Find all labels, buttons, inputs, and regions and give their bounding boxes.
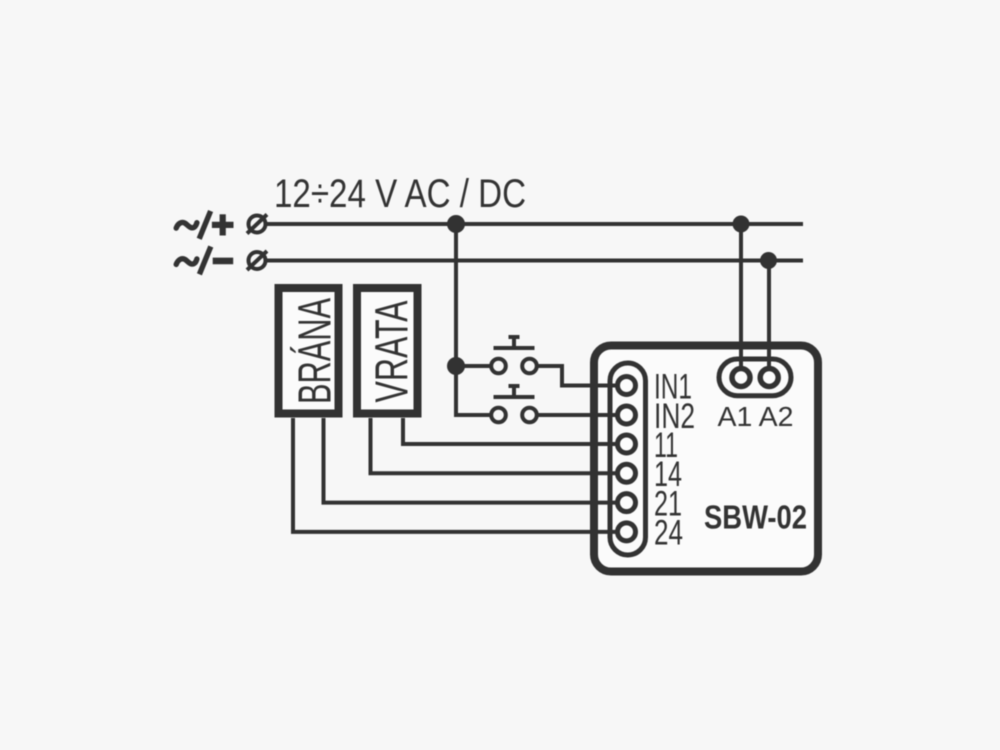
wire A2 drop: [767, 261, 771, 378]
terminal screw top: [247, 215, 267, 234]
box BRANA: [279, 288, 341, 414]
svg-text:12÷24 V AC / DC: 12÷24 V AC / DC: [274, 172, 526, 216]
label ~/+: [176, 211, 233, 239]
module SBW-02 body: [594, 346, 818, 572]
node junction on top line at x=741: [733, 216, 750, 233]
terminal 21: [618, 494, 636, 512]
terminal IN2: [618, 406, 636, 424]
terminal 14: [618, 464, 636, 482]
wire VRATA left to 14: [371, 418, 627, 473]
wire to switch 1: [456, 364, 492, 368]
svg-text:VRATA: VRATA: [366, 300, 418, 402]
wire BRANA left to 24: [293, 418, 627, 532]
label ~/-: [176, 247, 233, 275]
node junction on bottom line at x=768: [760, 252, 777, 269]
terminal screw bottom: [247, 251, 267, 270]
wire stub 21: [590, 501, 627, 505]
svg-text:BRÁNA: BRÁNA: [289, 298, 341, 404]
node junction on top line at x=456: [447, 215, 465, 233]
wire BRANA right to 21: [324, 418, 627, 503]
switch S2 (push-button to IN2): [491, 386, 537, 422]
wire stub 11: [590, 442, 627, 446]
wire supply line bottom: [266, 259, 803, 263]
wire VRATA right to 11: [403, 418, 627, 444]
wire switch 2 to IN2: [537, 413, 627, 417]
svg-text:A1 A2: A1 A2: [718, 401, 794, 432]
wire A1 drop: [739, 224, 743, 378]
wire stub IN2: [590, 413, 627, 417]
terminal strip pill A1 A2: [719, 359, 791, 396]
node junction switch feeder: [447, 357, 465, 375]
wire stub A2: [767, 345, 771, 378]
switch S1 (push-button to IN1): [491, 337, 537, 373]
wire stub IN1: [562, 384, 627, 388]
wire stub A1: [739, 345, 743, 378]
svg-text:SBW-02: SBW-02: [704, 499, 807, 536]
svg-text:24: 24: [654, 514, 683, 553]
wire stub 14: [590, 471, 627, 475]
terminal 11: [618, 435, 636, 453]
wire switch feeder vertical: [456, 224, 492, 415]
terminal A1: [732, 369, 750, 387]
wire stub 24: [590, 530, 627, 534]
wire supply line top: [266, 222, 803, 226]
wire switch 1 to IN1: [537, 366, 627, 386]
terminal A2: [760, 369, 778, 387]
terminal 24: [618, 523, 636, 541]
terminal strip pill left: [610, 363, 646, 555]
terminal IN1: [618, 377, 636, 395]
box VRATA: [357, 288, 418, 414]
